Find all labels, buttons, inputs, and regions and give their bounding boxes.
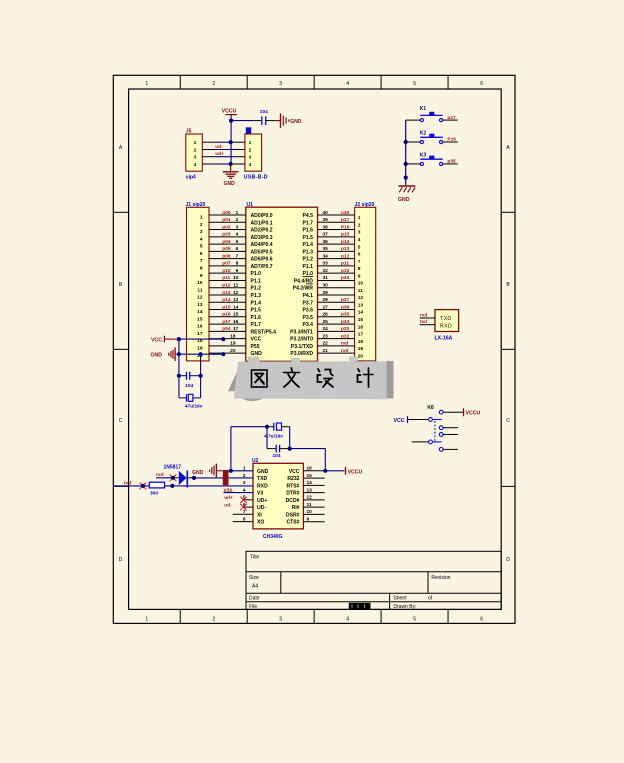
net label p07 pin 8 <box>222 261 238 267</box>
capacitor 104 (decoupling U1) <box>179 372 201 389</box>
svg-text:14: 14 <box>233 304 239 310</box>
svg-text:6: 6 <box>358 252 361 258</box>
connector J5 <box>186 128 203 180</box>
wire U1.28 to J2.13 <box>318 301 355 303</box>
wire K3 right to net p35 <box>443 163 458 165</box>
wire U1.36 to J2.5 <box>318 243 355 245</box>
svg-text:6: 6 <box>480 81 483 87</box>
junction cap right <box>288 447 292 451</box>
svg-text:P1.6: P1.6 <box>251 315 262 321</box>
svg-text:p17: p17 <box>341 217 350 223</box>
svg-text:2: 2 <box>200 222 203 228</box>
junction above ground <box>404 176 408 180</box>
svg-text:AD4/P0.4: AD4/P0.4 <box>251 242 273 248</box>
svg-text:Size: Size <box>249 575 259 581</box>
wire J1.6 to U1.6 <box>209 250 246 252</box>
svg-text:4: 4 <box>236 232 239 238</box>
svg-text:12: 12 <box>358 295 364 301</box>
svg-text:17: 17 <box>233 326 239 332</box>
svg-text:4: 4 <box>346 617 349 623</box>
svg-text:16: 16 <box>307 466 313 472</box>
svg-text:1: 1 <box>145 617 148 623</box>
svg-text:2: 2 <box>212 81 215 87</box>
wire K1 left stub <box>406 119 421 121</box>
svg-text:p35: p35 <box>447 159 456 165</box>
junction U2.16 <box>323 469 327 473</box>
svg-text:txd: txd <box>124 480 131 486</box>
wire VCCU vertical down to USB row4 <box>230 121 232 164</box>
svg-text:AD5/P0.5: AD5/P0.5 <box>251 249 273 255</box>
svg-text:4: 4 <box>346 81 349 87</box>
wire J1.17 to U1.17 <box>209 330 246 332</box>
connector J2 <box>355 202 376 361</box>
net label p11 pin 10 <box>222 275 238 281</box>
wire resistor to U2.3 RXD <box>165 485 254 487</box>
svg-text:1: 1 <box>236 210 239 216</box>
power VCC (K6 left) <box>394 416 408 424</box>
svg-text:P3.4: P3.4 <box>303 322 314 328</box>
svg-text:p17: p17 <box>222 319 231 325</box>
wire vertical pin1 up to caps <box>230 427 232 471</box>
svg-text:p12: p12 <box>341 253 350 259</box>
svg-text:22: 22 <box>323 341 329 347</box>
svg-text:DTR#: DTR# <box>286 491 299 497</box>
svg-text:5: 5 <box>200 244 203 250</box>
capacitor 4.7u/16v <box>264 423 290 440</box>
svg-text:R232: R232 <box>287 476 299 482</box>
wire J1.12 to U1.12 <box>209 294 246 296</box>
svg-text:34: 34 <box>323 253 329 259</box>
svg-text:p15: p15 <box>222 304 231 310</box>
svg-text:TXD: TXD <box>257 476 268 482</box>
svg-text:11: 11 <box>358 288 363 294</box>
svg-text:28: 28 <box>323 297 329 303</box>
svg-text:p10: p10 <box>341 268 350 274</box>
wire diode to U2.2 TXD <box>194 477 253 479</box>
svg-text:AD2/P0.2: AD2/P0.2 <box>251 228 273 234</box>
wire cap right down <box>289 427 291 449</box>
wire J1.14 to U1.14 <box>209 309 246 311</box>
svg-text:p01: p01 <box>222 217 231 223</box>
svg-text:p02: p02 <box>222 224 231 230</box>
watermark text 图 文 设 计 <box>252 368 374 387</box>
svg-text:32: 32 <box>323 268 329 274</box>
svg-text:K3: K3 <box>420 152 427 158</box>
svg-text:19: 19 <box>230 341 236 347</box>
svg-text:11: 11 <box>307 502 312 508</box>
earth ground GND (K switches) <box>398 186 415 203</box>
svg-text:27: 27 <box>323 304 329 310</box>
svg-text:rxd: rxd <box>156 472 164 478</box>
svg-text:15: 15 <box>197 316 203 322</box>
svg-text:39: 39 <box>323 217 329 223</box>
wire U1.40 to J2.1 <box>318 214 355 216</box>
svg-text:GND: GND <box>251 351 263 357</box>
svg-text:P1.0: P1.0 <box>251 271 262 277</box>
svg-text:16: 16 <box>358 324 364 330</box>
wire U1.38 to J2.3 <box>318 229 355 231</box>
wire U1.39 to J2.2 <box>318 221 355 223</box>
wire U2.10 stub <box>303 513 324 515</box>
IC U2 <box>252 458 303 540</box>
svg-text:9: 9 <box>236 268 239 274</box>
wire U1.29 to J2.12 <box>318 294 355 296</box>
connector USB-B-D <box>244 127 268 180</box>
svg-text:14: 14 <box>307 480 313 486</box>
svg-text:txd: txd <box>420 319 427 325</box>
svg-text:P1.2: P1.2 <box>303 257 314 263</box>
svg-text:1N5817: 1N5817 <box>164 465 182 471</box>
svg-text:p05: p05 <box>222 246 231 252</box>
svg-text:Title: Title <box>250 555 259 561</box>
svg-text:AD3/P0.3: AD3/P0.3 <box>251 235 273 241</box>
svg-text:P3.0/RXD: P3.0/RXD <box>290 351 313 357</box>
power ground GND (top right, sideways bars) <box>281 113 302 127</box>
svg-text:21: 21 <box>323 348 329 354</box>
net label p00 pin 1 <box>222 210 238 216</box>
svg-text:p34: p34 <box>341 319 350 325</box>
wire junction to VCCU bar <box>325 470 344 472</box>
net label p02 pin 3 <box>222 224 238 230</box>
wire K-switch common vertical bus <box>405 120 407 186</box>
svg-text:CH340G: CH340G <box>263 534 283 540</box>
power VCC (left of J1) <box>151 336 179 344</box>
svg-text:4: 4 <box>249 162 252 168</box>
svg-text:rxd: rxd <box>420 312 428 318</box>
wire U1.32 to J2.9 <box>318 272 355 274</box>
junction diode anode <box>171 476 175 480</box>
svg-text:23: 23 <box>323 333 329 339</box>
switch K2 <box>420 131 443 144</box>
svg-text:p35: p35 <box>341 312 350 318</box>
svg-text:P1.7: P1.7 <box>303 220 314 226</box>
svg-text:p14: p14 <box>341 239 350 245</box>
wire J1.20 to U1.20 <box>209 352 246 354</box>
wire U1.34 to J2.7 <box>318 258 355 260</box>
net label p14 pin 13 <box>222 297 238 303</box>
junction GND node <box>177 352 181 356</box>
net label p01 pin 2 <box>222 217 238 223</box>
svg-text:5: 5 <box>413 617 416 623</box>
svg-text:8: 8 <box>200 266 203 272</box>
wire K2 right to net P16 <box>443 141 458 143</box>
wire U2.11 stub <box>303 506 324 508</box>
svg-text:P3.2/INT0: P3.2/INT0 <box>290 337 313 343</box>
svg-text:p11: p11 <box>222 275 230 281</box>
column dividers top/bottom <box>180 75 448 623</box>
switch K6 <box>427 405 443 451</box>
svg-text:AD0/P0.0: AD0/P0.0 <box>251 213 273 219</box>
junction K3 <box>404 162 408 166</box>
wire down to U2.16 row <box>324 449 326 471</box>
svg-text:7: 7 <box>236 253 239 259</box>
power ground GND (U2 pin1) <box>192 464 229 486</box>
svg-text:3: 3 <box>279 617 282 623</box>
svg-text:7: 7 <box>200 258 203 264</box>
svg-text:of: of <box>428 596 433 602</box>
power ground GND (left of J1, sideways bars) <box>150 347 178 361</box>
svg-text:ud-: ud- <box>224 503 232 509</box>
wire VCC to J1 row18 <box>179 338 223 340</box>
svg-text:10: 10 <box>307 509 313 515</box>
svg-text:P1.3: P1.3 <box>303 249 314 255</box>
svg-text:C: C <box>506 418 510 424</box>
junction VCC node <box>177 337 181 341</box>
svg-text:6: 6 <box>200 251 203 257</box>
svg-text:GND: GND <box>192 470 204 476</box>
wire U1.33 to J2.8 <box>318 265 355 267</box>
svg-text:p36: p36 <box>341 304 350 310</box>
svg-text:A4: A4 <box>252 584 258 590</box>
svg-text:30: 30 <box>323 283 329 289</box>
svg-text:2: 2 <box>212 617 215 623</box>
svg-text:25: 25 <box>323 319 329 325</box>
svg-text:p14: p14 <box>222 297 231 303</box>
svg-text:ud+: ud+ <box>224 495 233 501</box>
connector J1 <box>186 202 209 361</box>
svg-text:DCD#: DCD# <box>286 498 300 504</box>
svg-text:p04: p04 <box>222 239 231 245</box>
svg-text:P3.6: P3.6 <box>303 308 314 314</box>
net label p16 pin 15 <box>222 312 238 318</box>
svg-text:p16: p16 <box>222 312 231 318</box>
wire U2.15 stub <box>303 477 324 479</box>
sheet inner border frame <box>129 89 502 609</box>
svg-text:3: 3 <box>194 155 197 161</box>
net label p17 pin 16 <box>222 319 238 325</box>
svg-text:p17: p17 <box>447 115 456 121</box>
svg-text:26: 26 <box>323 312 329 318</box>
wire GND to J1 row20 <box>179 353 223 355</box>
svg-text:p33: p33 <box>341 326 350 332</box>
wire net txd to resistor R-300 <box>114 485 149 487</box>
wire J1.5 to U1.5 <box>209 243 246 245</box>
svg-text:p54: p54 <box>222 326 231 332</box>
svg-text:3: 3 <box>358 230 361 236</box>
junction <box>141 484 145 488</box>
svg-text:37: 37 <box>323 232 329 238</box>
svg-text:9: 9 <box>307 517 310 523</box>
svg-text:rxd: rxd <box>341 348 349 354</box>
svg-text:GND: GND <box>224 181 236 187</box>
wire U2.1 GND row <box>229 470 254 472</box>
svg-text:47u/16v: 47u/16v <box>185 404 203 410</box>
svg-text:10: 10 <box>197 280 203 286</box>
diode D1 1N5817 <box>164 465 195 488</box>
wire net V33 to U2.4 <box>224 492 254 494</box>
svg-text:3: 3 <box>243 480 246 486</box>
no-ERC mark <box>140 483 147 490</box>
svg-text:20: 20 <box>230 348 236 354</box>
no-ERC mark <box>170 474 177 481</box>
svg-text:P4.5: P4.5 <box>303 213 314 219</box>
junction row20 <box>221 352 225 356</box>
net label p12 pin 11 <box>222 283 238 289</box>
wire U2.8 XO stub <box>233 521 253 523</box>
wire caps left vertical <box>266 427 268 449</box>
svg-text:5: 5 <box>236 239 239 245</box>
svg-text:p00: p00 <box>222 210 231 216</box>
no-ERC mark ud+ <box>240 497 246 503</box>
wire J1.2 to U1.2 <box>209 221 246 223</box>
net label p04 pin 5 <box>222 239 238 245</box>
svg-text:ud+: ud+ <box>215 151 224 157</box>
junction cap row left <box>177 374 181 378</box>
svg-text:4: 4 <box>194 162 197 168</box>
row letter labels <box>119 145 511 563</box>
capacitor 104 (U2) <box>267 445 290 459</box>
wire VCC to K6 pole <box>408 419 429 421</box>
power VCCU (top) <box>222 109 237 121</box>
svg-text:6: 6 <box>236 246 239 252</box>
junction K2 <box>404 140 408 144</box>
svg-text:ud-: ud- <box>215 144 223 150</box>
svg-text:P4.2/WR: P4.2/WR <box>293 286 314 292</box>
wire U2.6 stub <box>244 506 254 508</box>
power ground GND (below USB rows) <box>223 164 239 187</box>
svg-text:16: 16 <box>233 319 239 325</box>
wire cap to GND bars <box>266 120 281 122</box>
svg-text:14: 14 <box>358 310 364 316</box>
wire J1.3 to U1.3 <box>209 229 246 231</box>
svg-text:sip4: sip4 <box>186 174 196 180</box>
wire rxd to LX TXD <box>420 317 435 319</box>
svg-text:33: 33 <box>323 261 329 267</box>
svg-text:18: 18 <box>230 333 236 339</box>
svg-text:C: C <box>119 418 123 424</box>
svg-text:12: 12 <box>197 295 203 301</box>
svg-text:VCC: VCC <box>394 418 405 424</box>
svg-text:1: 1 <box>194 140 197 146</box>
svg-text:UD+: UD+ <box>257 498 267 504</box>
wire vertical VCC to caps <box>178 339 180 398</box>
svg-text:GND: GND <box>290 119 302 125</box>
switch K1 <box>420 106 443 122</box>
svg-text:Date: Date <box>249 596 260 602</box>
svg-text:17: 17 <box>358 332 364 338</box>
svg-text:p07: p07 <box>222 261 231 267</box>
svg-text:300: 300 <box>150 490 158 496</box>
svg-text:VCC: VCC <box>151 337 162 343</box>
svg-text:19: 19 <box>358 346 364 352</box>
wire U2.16 stub <box>303 470 324 472</box>
svg-text:p03: p03 <box>222 232 231 238</box>
svg-text:3: 3 <box>236 224 239 230</box>
svg-text:1: 1 <box>249 140 252 146</box>
power VCCU (K6) <box>464 408 481 417</box>
wire J5.1 to USB.1 <box>202 141 245 143</box>
watermark shadow tabs above <box>248 357 358 363</box>
svg-text:P1.7: P1.7 <box>251 322 262 328</box>
wire U2.14 stub <box>303 484 324 486</box>
svg-text:AD1/P0.1: AD1/P0.1 <box>251 220 273 226</box>
svg-text:12: 12 <box>307 495 313 501</box>
sheet outer border frame <box>113 75 515 623</box>
wire U2.13 stub <box>303 492 324 494</box>
wire J1.11 to U1.11 <box>209 287 246 289</box>
junction row1 <box>229 140 233 144</box>
svg-text:9: 9 <box>200 273 203 279</box>
svg-text:p06: p06 <box>222 253 231 259</box>
net label p54 pin 17 <box>222 326 238 332</box>
junction cap row right <box>199 374 203 378</box>
svg-text:AD7/P0.7: AD7/P0.7 <box>251 264 273 270</box>
file name highlighted blob <box>349 603 371 609</box>
svg-text:15: 15 <box>358 317 364 323</box>
wire U1.26 to J2.15 <box>318 316 355 318</box>
svg-text:USB-B-D: USB-B-D <box>244 174 268 180</box>
wire U1.31 to J2.10 <box>318 279 355 281</box>
svg-text:p37: p37 <box>341 297 350 303</box>
svg-text:8: 8 <box>236 261 239 267</box>
svg-text:VCCU: VCCU <box>222 109 237 115</box>
svg-text:19: 19 <box>197 345 203 351</box>
svg-text:5: 5 <box>358 244 361 250</box>
svg-text:3: 3 <box>200 229 203 235</box>
svg-text:2: 2 <box>358 222 361 228</box>
wire horizontal to cap pair <box>231 426 267 428</box>
wire J1.19 to U1.19 <box>209 345 246 347</box>
wire cap row to VCC column <box>290 448 326 450</box>
wire U1.24 to J2.17 <box>318 330 355 332</box>
svg-text:1: 1 <box>200 215 203 221</box>
svg-text:Drawn By:: Drawn By: <box>393 604 416 610</box>
svg-text:V3: V3 <box>257 491 263 497</box>
junction row4 <box>229 162 233 166</box>
net label p13 pin 12 <box>222 290 238 296</box>
svg-text:REST/P5.4: REST/P5.4 <box>251 329 277 335</box>
wire U2.7 XI stub <box>233 513 253 515</box>
wire K6 row6 stub <box>443 448 458 450</box>
svg-text:1: 1 <box>145 81 148 87</box>
svg-text:104: 104 <box>273 453 281 459</box>
junction mid <box>199 352 203 356</box>
svg-text:2: 2 <box>249 148 252 154</box>
svg-text:4: 4 <box>358 237 361 243</box>
svg-text:K6: K6 <box>427 405 434 411</box>
junction row18 <box>221 337 225 341</box>
svg-text:P3.3/INT1: P3.3/INT1 <box>290 329 313 335</box>
switch K3 <box>420 152 443 165</box>
wire K3 left stub <box>406 163 421 165</box>
wire J1.7 to U1.7 <box>209 258 246 260</box>
title block <box>246 551 501 609</box>
wire J5.3 to USB.3 (net ud+) <box>202 156 245 158</box>
wire J1.1 to U1.1 <box>209 214 246 216</box>
svg-text:p45: p45 <box>341 210 350 216</box>
svg-text:29: 29 <box>323 290 329 296</box>
svg-text:14: 14 <box>197 309 203 315</box>
svg-text:40: 40 <box>323 210 329 216</box>
svg-text:UD-: UD- <box>257 505 266 511</box>
svg-text:9: 9 <box>358 273 361 279</box>
svg-text:J5: J5 <box>186 128 192 134</box>
wire U1.27 to J2.14 <box>318 309 355 311</box>
svg-text:XI: XI <box>257 512 262 518</box>
svg-text:4: 4 <box>200 236 203 242</box>
svg-text:P3.5: P3.5 <box>303 315 314 321</box>
svg-text:7: 7 <box>358 259 361 265</box>
svg-text:20: 20 <box>358 353 364 359</box>
svg-text:13: 13 <box>233 297 239 303</box>
svg-text:P1.5: P1.5 <box>251 308 262 314</box>
svg-text:P55: P55 <box>251 344 260 350</box>
svg-text:5: 5 <box>413 81 416 87</box>
wire U1.35 to J2.6 <box>318 250 355 252</box>
svg-text:2: 2 <box>194 148 197 154</box>
svg-text:P1.2: P1.2 <box>251 286 262 292</box>
svg-text:11: 11 <box>233 283 238 289</box>
